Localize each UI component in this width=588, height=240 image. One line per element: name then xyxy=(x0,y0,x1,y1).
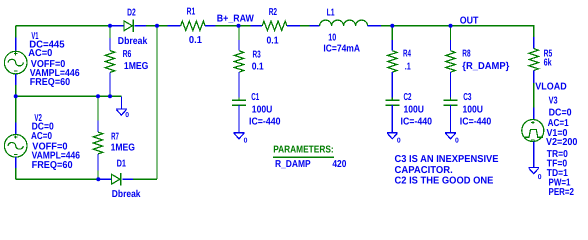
label V3 DC xyxy=(549,108,572,119)
wire R7 bottom stub xyxy=(97,171,99,180)
wire R2 to L1 xyxy=(300,25,310,27)
svg-text:FREQ=60: FREQ=60 xyxy=(30,77,71,88)
wire bottom rail left xyxy=(16,178,99,180)
label C2 xyxy=(404,92,412,103)
svg-text:100U: 100U xyxy=(404,105,425,116)
wire D1 to return corner xyxy=(133,178,157,180)
svg-text:CAPACITOR.: CAPACITOR. xyxy=(395,165,453,176)
svg-text:0: 0 xyxy=(125,112,129,119)
wire V1 minus pin xyxy=(15,74,17,85)
wire R1 left pin xyxy=(167,25,180,27)
wire R8 to C3 xyxy=(450,72,452,100)
label V1 AC xyxy=(28,48,53,59)
wire R4 to C2 xyxy=(391,72,393,100)
svg-text:0.1: 0.1 xyxy=(189,35,202,46)
resistor R8 xyxy=(446,51,455,72)
svg-text:IC=74mA: IC=74mA xyxy=(323,43,360,54)
wire ground stub xyxy=(110,95,121,97)
label V3 TF xyxy=(547,159,568,170)
svg-text:R3: R3 xyxy=(253,50,262,61)
svg-text:10: 10 xyxy=(328,33,336,44)
svg-text:1MEG: 1MEG xyxy=(111,143,136,154)
svg-text:R8: R8 xyxy=(462,49,471,60)
svg-text:R6: R6 xyxy=(123,49,132,60)
wire L1 left pin xyxy=(309,25,319,27)
svg-text:R_DAMP: R_DAMP xyxy=(275,159,311,170)
label R5 6k xyxy=(544,57,552,68)
ground V3 xyxy=(528,168,539,174)
label V3 xyxy=(549,96,558,107)
junction R6 top xyxy=(108,24,112,28)
ground node A xyxy=(234,133,245,139)
label R3 xyxy=(253,50,262,61)
ground node C xyxy=(445,133,456,139)
resistor R4 xyxy=(388,51,397,72)
node OUT xyxy=(460,16,479,27)
wire R6 top pin xyxy=(109,38,111,51)
svg-text:C3 IS AN INEXPENSIVE: C3 IS AN INEXPENSIVE xyxy=(395,154,499,165)
wire R8 top xyxy=(450,26,452,40)
svg-text:V2=200: V2=200 xyxy=(546,137,578,148)
ground V3 label 0 xyxy=(538,174,542,181)
wire V1 plus pin xyxy=(15,38,17,52)
label L1 IC xyxy=(323,43,360,54)
label V2 VAMPL xyxy=(32,151,81,162)
svg-text:Dbreak: Dbreak xyxy=(112,189,141,200)
label R8 value xyxy=(462,61,509,72)
svg-text:IC=-440: IC=-440 xyxy=(249,117,281,128)
label V1 FREQ xyxy=(30,77,71,88)
label V2 AC xyxy=(31,131,52,142)
label R2 0.1 xyxy=(267,36,279,47)
wire R4 top pin xyxy=(391,40,393,51)
svg-text:0: 0 xyxy=(538,174,542,181)
label V1 VOFF xyxy=(31,59,66,70)
svg-text:IC=-440: IC=-440 xyxy=(460,117,492,128)
svg-text:C1: C1 xyxy=(251,92,259,103)
label C3 xyxy=(463,92,472,103)
svg-text:R4: R4 xyxy=(403,49,411,60)
svg-text:AC=0: AC=0 xyxy=(28,48,53,59)
label V3 V2 xyxy=(546,137,578,148)
svg-text:DC=0: DC=0 xyxy=(549,108,572,119)
wire R8 top pin xyxy=(450,40,452,51)
wire R4 top xyxy=(391,26,393,40)
wire V3 bottom pin xyxy=(533,142,535,168)
svg-text:AC=0: AC=0 xyxy=(31,131,52,142)
capacitor C1 xyxy=(232,97,246,108)
wire node B+_RAW xyxy=(216,25,251,27)
ground node B xyxy=(387,133,398,139)
capacitor C2 xyxy=(385,97,399,108)
wire R7 bottom pin xyxy=(97,154,99,171)
wire C3 to ground xyxy=(450,105,452,133)
wire D2 to R1 xyxy=(146,25,167,27)
voltage source V1 xyxy=(4,51,27,74)
diode D1 xyxy=(112,173,121,185)
note line 3 xyxy=(395,176,494,187)
wire R5 top pin xyxy=(533,37,535,49)
ground B label 0 xyxy=(397,138,401,145)
ground mid-left label 0 xyxy=(125,112,129,119)
wire D2 anode pin xyxy=(110,25,124,27)
svg-text:C3: C3 xyxy=(463,92,472,103)
wire V3 top pin xyxy=(533,108,535,120)
label L1 xyxy=(327,8,335,19)
svg-text:6k: 6k xyxy=(544,57,552,68)
resistor R3 xyxy=(234,51,243,72)
label R4 xyxy=(403,49,411,60)
wire R1 right pin xyxy=(205,25,216,27)
inductor L1 xyxy=(320,20,368,26)
svg-text:R1: R1 xyxy=(187,7,196,18)
label V1 VAMPL xyxy=(30,68,80,79)
node VLOAD xyxy=(535,82,566,93)
label R1 0.1 xyxy=(189,35,202,46)
label V3 PW xyxy=(549,178,571,189)
resistor R2 xyxy=(262,21,287,30)
svg-text:D2: D2 xyxy=(127,8,136,19)
capacitor C3 xyxy=(444,97,458,108)
svg-text:B+_RAW: B+_RAW xyxy=(217,14,254,25)
label C2 100U xyxy=(404,105,425,116)
label V3 V1 xyxy=(547,128,568,139)
svg-text:100U: 100U xyxy=(252,105,272,116)
svg-text:{R_DAMP}: {R_DAMP} xyxy=(462,61,509,72)
label V1 xyxy=(31,31,38,42)
svg-text:PER=2: PER=2 xyxy=(549,187,575,198)
label C3 100U xyxy=(463,105,484,116)
svg-text:D1: D1 xyxy=(117,159,127,170)
label PARAMETERS heading xyxy=(273,144,334,155)
label C1 IC xyxy=(249,117,281,128)
wire V2 plus pin xyxy=(15,123,17,135)
wire R6 top xyxy=(109,26,111,38)
ground mid-left xyxy=(116,109,127,115)
svg-text:OUT: OUT xyxy=(460,16,479,27)
node B+_RAW xyxy=(217,14,254,25)
svg-text:0: 0 xyxy=(244,138,248,145)
wire L1 to OUT to R5 corner xyxy=(381,25,534,27)
svg-text:V3: V3 xyxy=(549,96,558,107)
label V2 DC xyxy=(32,122,55,133)
label R1 xyxy=(187,7,196,18)
junction R7 bottom xyxy=(96,177,100,181)
ground C label 0 xyxy=(455,138,459,145)
label V3 TD xyxy=(547,168,568,179)
svg-text:C2 IS THE GOOD ONE: C2 IS THE GOOD ONE xyxy=(395,176,494,187)
svg-text:1MEG: 1MEG xyxy=(124,61,149,72)
svg-text:R2: R2 xyxy=(269,7,278,18)
note line 2 xyxy=(395,165,453,176)
junction OUT xyxy=(449,24,453,28)
wire D1 anode pin xyxy=(98,178,111,180)
label V2 xyxy=(34,113,42,124)
resistor R1 xyxy=(181,21,206,30)
label R3 0.1 xyxy=(252,62,264,73)
junction R6 bottom xyxy=(108,94,112,98)
wire R7 top pin xyxy=(97,121,99,133)
label R4 .1 xyxy=(405,62,411,73)
wire V2 to bottom rail xyxy=(15,168,17,179)
svg-text:0.1: 0.1 xyxy=(267,36,279,47)
label C1 xyxy=(251,92,259,103)
wire R5 to V3 xyxy=(533,83,535,108)
wire V2 minus pin xyxy=(15,157,17,168)
svg-text:.1: .1 xyxy=(405,62,411,73)
svg-text:0: 0 xyxy=(455,138,459,145)
label C1 100U xyxy=(252,105,272,116)
svg-text:VLOAD: VLOAD xyxy=(535,82,566,93)
label R5 xyxy=(544,49,553,60)
label D1 xyxy=(117,159,127,170)
ground A label 0 xyxy=(244,138,248,145)
parameter R_DAMP value xyxy=(332,159,346,170)
wire R2 right pin xyxy=(287,25,300,27)
wire C2 to ground xyxy=(391,105,393,133)
wire C1 to ground xyxy=(238,105,240,133)
wire R3 to C1 xyxy=(238,72,240,100)
svg-text:0: 0 xyxy=(397,138,401,145)
label R2 xyxy=(269,7,278,18)
wire L1 right pin xyxy=(368,25,381,27)
label V2 VOFF xyxy=(32,141,68,152)
label D1 Dbreak xyxy=(112,189,141,200)
wire R2 left pin xyxy=(251,25,263,27)
svg-text:Dbreak: Dbreak xyxy=(118,36,148,47)
parameters underline xyxy=(273,156,334,158)
svg-text:C2: C2 xyxy=(404,92,412,103)
label R6 xyxy=(123,49,132,60)
junction B+_RAW xyxy=(237,24,241,28)
label V2 FREQ xyxy=(32,160,73,171)
svg-text:100U: 100U xyxy=(463,105,484,116)
junction L1 output xyxy=(390,24,394,28)
junction R7 top xyxy=(96,94,100,98)
wire top rail V1 to R6 node xyxy=(16,25,110,27)
diode D2 xyxy=(124,20,133,32)
wire R6 bottom stub xyxy=(109,94,111,97)
label R7 1MEG xyxy=(111,143,136,154)
wire D2 cathode pin xyxy=(135,25,146,27)
wire R6 bottom pin xyxy=(109,73,111,94)
svg-text:IC=-440: IC=-440 xyxy=(401,117,433,128)
label V1 DC xyxy=(29,40,65,51)
resistor R6 xyxy=(105,51,114,73)
label C2 IC xyxy=(401,117,433,128)
svg-text:L1: L1 xyxy=(327,8,335,19)
wire mid rail xyxy=(16,95,110,97)
label V3 AC xyxy=(548,118,569,129)
note line 1 xyxy=(395,154,499,165)
label R6 1MEG xyxy=(124,61,149,72)
label L1 10 xyxy=(328,33,336,44)
svg-text:420: 420 xyxy=(332,159,346,170)
label D2 Dbreak xyxy=(118,36,148,47)
svg-text:0.1: 0.1 xyxy=(252,62,264,73)
resistor R5 xyxy=(529,49,538,71)
junction D2-R1 node xyxy=(155,24,159,28)
wire R5 bottom pin xyxy=(533,71,535,84)
wire D1 cathode pin xyxy=(122,178,133,180)
label R8 xyxy=(462,49,471,60)
parameter R_DAMP xyxy=(275,159,311,170)
junction V1-V2 node xyxy=(14,94,18,98)
label V3 PER xyxy=(549,187,575,198)
resistor R7 xyxy=(93,132,102,154)
label D2 xyxy=(127,8,136,19)
wire vertical return xyxy=(156,26,158,179)
label R7 xyxy=(111,132,119,143)
wire ground pin xyxy=(120,96,122,109)
wire R3 top pin xyxy=(238,40,240,51)
svg-text:R7: R7 xyxy=(111,132,119,143)
voltage source V3 xyxy=(522,120,544,142)
wire mid rail to V2 xyxy=(15,96,17,122)
svg-text:FREQ=60: FREQ=60 xyxy=(32,160,73,171)
voltage source V2 xyxy=(4,135,27,158)
wire V1 to mid rail xyxy=(15,85,17,96)
label V3 TR xyxy=(547,149,568,160)
wire R5 top xyxy=(533,26,535,37)
wire V1 top xyxy=(15,26,17,38)
label C3 IC xyxy=(460,117,492,128)
svg-text:PARAMETERS:: PARAMETERS: xyxy=(273,144,334,155)
wire R7 top xyxy=(97,96,99,120)
wire R3 top xyxy=(238,26,240,40)
